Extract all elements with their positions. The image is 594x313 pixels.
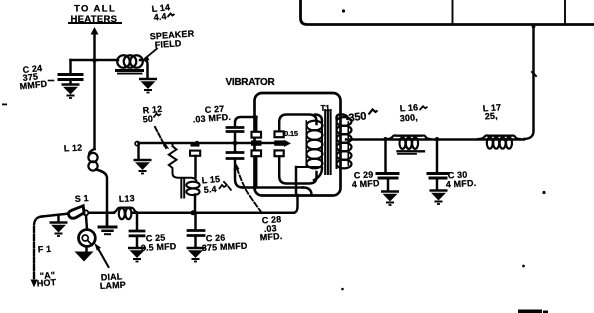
- svg-text:FIELD: FIELD: [154, 38, 182, 50]
- svg-text:5.4: 5.4: [203, 184, 217, 195]
- svg-text:300,: 300,: [399, 112, 418, 123]
- svg-text:50: 50: [142, 114, 153, 125]
- svg-text:VIBRATOR: VIBRATOR: [226, 77, 276, 88]
- svg-text:F 1: F 1: [38, 244, 52, 255]
- svg-text:HOT: HOT: [36, 277, 56, 288]
- svg-text:25,: 25,: [484, 111, 498, 122]
- svg-text:LAMP: LAMP: [100, 280, 127, 291]
- svg-text:HEATERS: HEATERS: [71, 14, 118, 25]
- svg-text:L13: L13: [119, 193, 135, 204]
- svg-text:T1: T1: [321, 104, 331, 113]
- svg-text:4 MFD.: 4 MFD.: [446, 178, 477, 190]
- svg-text:4 MFD: 4 MFD: [352, 178, 381, 189]
- svg-text:0.15: 0.15: [284, 129, 298, 138]
- svg-text:0.5 MFD: 0.5 MFD: [141, 241, 177, 253]
- svg-text:MFD.: MFD.: [259, 231, 282, 243]
- svg-text:L 12: L 12: [64, 143, 83, 154]
- svg-text:4.4: 4.4: [153, 11, 167, 22]
- svg-text:TO ALL: TO ALL: [74, 4, 116, 15]
- svg-text:S 1: S 1: [74, 193, 89, 204]
- svg-text:350: 350: [348, 110, 367, 124]
